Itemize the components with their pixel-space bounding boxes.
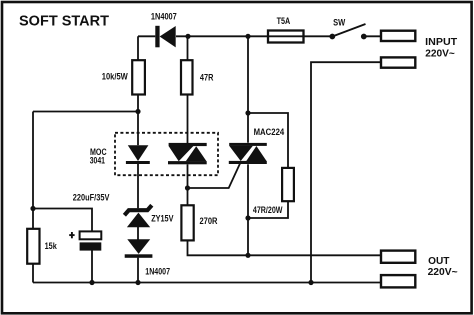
svg-text:1N4007: 1N4007 — [151, 12, 177, 22]
svg-text:INPUT: INPUT — [425, 37, 458, 48]
svg-text:220uF/35V: 220uF/35V — [73, 193, 110, 203]
svg-text:15k: 15k — [45, 241, 57, 251]
svg-text:220V~: 220V~ — [425, 48, 455, 59]
svg-text:SOFT START: SOFT START — [19, 12, 110, 29]
svg-text:MAC224: MAC224 — [254, 127, 285, 137]
svg-text:SW: SW — [333, 18, 346, 28]
svg-text:220V~: 220V~ — [428, 267, 458, 278]
svg-text:3041: 3041 — [90, 156, 105, 166]
svg-text:ZY15V: ZY15V — [151, 214, 173, 224]
svg-text:T5A: T5A — [277, 16, 291, 26]
svg-text:1N4007: 1N4007 — [145, 266, 170, 276]
svg-text:270R: 270R — [200, 216, 219, 226]
svg-text:10k/5W: 10k/5W — [102, 72, 129, 82]
svg-text:47R/20W: 47R/20W — [253, 205, 283, 215]
svg-text:OUT: OUT — [428, 256, 450, 267]
svg-text:47R: 47R — [200, 72, 214, 82]
